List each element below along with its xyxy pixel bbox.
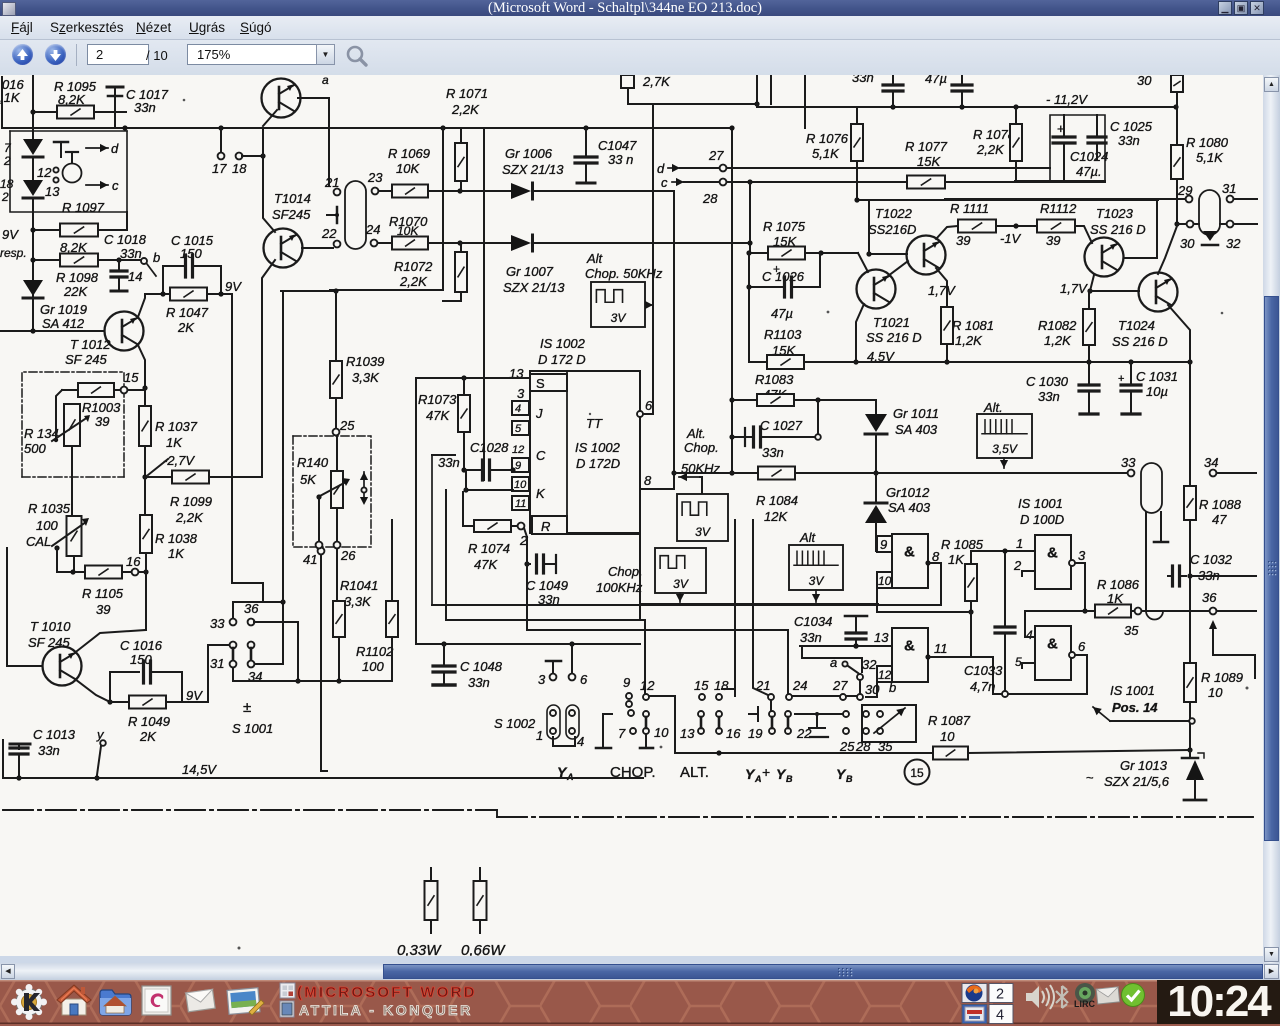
svg-text:R 1105: R 1105 [82, 586, 124, 601]
svg-text:R1039: R1039 [346, 354, 384, 369]
contact 24 [365, 222, 380, 246]
svg-text:30: 30 [1137, 75, 1152, 88]
svg-text:R: R [541, 519, 550, 534]
svg-text:47: 47 [1212, 512, 1227, 527]
wire pot link [54, 390, 62, 442]
svg-text:39: 39 [956, 233, 970, 248]
wire T1024 base line [1090, 290, 1139, 292]
svg-text:1: 1 [536, 728, 543, 743]
node dash box R134 [22, 372, 124, 477]
svg-text:9V: 9V [225, 279, 242, 294]
resistor 0,33W [397, 868, 442, 959]
resistor R1038 [140, 515, 198, 630]
capacitor C1049 [524, 528, 568, 607]
label ALT [680, 764, 709, 781]
resistor R1039 [330, 291, 384, 428]
svg-text:R 1097: R 1097 [62, 200, 105, 215]
contact 22 [321, 226, 340, 247]
svg-text:9V: 9V [186, 688, 203, 703]
contact 21c [748, 678, 775, 741]
home house icon [57, 985, 91, 1015]
wire [747, 182, 752, 253]
svg-text:-1V: -1V [1000, 231, 1022, 246]
svg-text:R 1037: R 1037 [155, 419, 198, 434]
switch oval 4 [566, 705, 584, 749]
wire [526, 564, 528, 630]
svg-text:S 1001: S 1001 [232, 721, 273, 736]
node 016 partial label [0, 77, 24, 105]
label 31b [210, 656, 224, 671]
wire [208, 645, 230, 702]
svg-text:5: 5 [1015, 655, 1022, 669]
svg-text:41: 41 [303, 552, 317, 567]
svg-text:3: 3 [517, 386, 525, 401]
svg-text:47µ: 47µ [771, 306, 793, 321]
svg-text:10: 10 [654, 725, 669, 740]
node IS1001 pos14 [1093, 683, 1189, 721]
svg-text:3V: 3V [809, 574, 825, 588]
scan specks [183, 99, 1249, 959]
node dash box R140 [293, 436, 371, 547]
svg-text:15K: 15K [917, 154, 941, 169]
resistor R1075 [746, 219, 858, 260]
pager 2x2 [962, 984, 1013, 1024]
svg-text:3: 3 [1078, 548, 1086, 563]
svg-text:19: 19 [748, 726, 762, 741]
svg-text:5,1K: 5,1K [1196, 150, 1224, 165]
svg-text:33n: 33n [1118, 133, 1140, 148]
svg-text:C: C [536, 448, 546, 463]
svg-text:4: 4 [996, 1008, 1004, 1024]
capacitor C1027 [732, 400, 821, 460]
svg-text:B: B [846, 774, 853, 784]
pulse box chop upper [591, 282, 653, 327]
wire T1023 collector loop [1124, 199, 1157, 258]
svg-text:Alt: Alt [799, 530, 817, 545]
label R1097 [62, 200, 105, 215]
svg-text:R140: R140 [297, 455, 329, 470]
svg-text:SS 216 D: SS 216 D [1090, 222, 1146, 237]
svg-text:2,2K: 2,2K [399, 274, 428, 289]
svg-text:34: 34 [1204, 455, 1218, 470]
resistor R1102 [356, 520, 398, 681]
label -11,2V [1046, 92, 1088, 107]
svg-text:24: 24 [792, 678, 807, 693]
svg-text:10: 10 [514, 479, 527, 491]
wire U link [553, 737, 575, 746]
resistor R1037 [139, 388, 198, 480]
resistor R1041 [333, 578, 378, 684]
svg-text:29: 29 [1177, 183, 1192, 198]
label Alt Chop 50KHz upper [585, 251, 663, 281]
svg-text:SF 245: SF 245 [65, 352, 107, 367]
ic pin 12b [866, 666, 892, 697]
potentiometer R1035 [26, 501, 89, 572]
label 2 [1013, 558, 1035, 576]
svg-text:1K: 1K [168, 546, 185, 561]
ic IS1002 label [538, 336, 586, 367]
svg-text:5: 5 [515, 423, 522, 435]
wire box 33n [432, 455, 455, 605]
wire [1189, 362, 1191, 486]
svg-text:31: 31 [1222, 181, 1236, 196]
resistor R1095 [30, 79, 126, 119]
resistor R1105 [57, 566, 131, 618]
svg-text:R 1049: R 1049 [128, 714, 170, 729]
svg-text:+: + [773, 262, 780, 276]
ic pin 9 [512, 458, 529, 472]
svg-text:TT: TT [586, 416, 603, 431]
wire T1014 collector down [328, 98, 330, 186]
wire bus x735 [734, 520, 736, 690]
node 2,7K box [621, 74, 671, 89]
svg-text:18: 18 [714, 678, 729, 693]
svg-text:resp.: resp. [0, 246, 27, 260]
wire bus y620 [446, 534, 645, 693]
svg-text:4: 4 [1026, 628, 1033, 642]
svg-text:25: 25 [339, 418, 355, 433]
svg-text:500: 500 [24, 441, 46, 456]
wire 17 18 contacts [212, 128, 266, 176]
wire main top rail [2, 125, 731, 130]
svg-text:4: 4 [515, 403, 521, 415]
wire [1145, 512, 1147, 520]
svg-text:9: 9 [623, 675, 630, 690]
ic TT label [575, 416, 621, 471]
capacitor C1032 [1154, 520, 1256, 586]
wire T1024 collector [1158, 226, 1177, 274]
svg-text:47K: 47K [426, 408, 450, 423]
svg-text:b: b [889, 680, 896, 695]
svg-text:7: 7 [618, 726, 626, 741]
svg-text:Gr 1019: Gr 1019 [40, 302, 87, 317]
svg-text:- 11,2V: - 11,2V [1046, 92, 1088, 107]
svg-text:c: c [112, 178, 119, 193]
svg-text:T 1012: T 1012 [70, 337, 111, 352]
svg-text:T1022: T1022 [875, 206, 913, 221]
wire T1021 emitter [853, 304, 864, 365]
svg-text:23: 23 [367, 170, 383, 185]
node 22 T [795, 712, 843, 737]
label 17-2 edge [2, 77, 12, 168]
svg-text:36: 36 [244, 601, 259, 616]
svg-text:C1034: C1034 [794, 614, 832, 629]
svg-text:SF245: SF245 [272, 207, 311, 222]
svg-text:1,7V: 1,7V [928, 283, 956, 298]
resistor R1072 [394, 243, 467, 301]
svg-text:24: 24 [365, 222, 380, 237]
capacitor C1048 [433, 644, 503, 690]
svg-text:C 1016: C 1016 [120, 638, 163, 653]
wire bus left vertical [232, 294, 283, 618]
gate output 11 [925, 641, 970, 660]
svg-text:11: 11 [515, 498, 526, 510]
ic pin S [509, 366, 567, 391]
svg-text:27: 27 [708, 148, 724, 163]
resistor R1112 [1037, 201, 1092, 248]
switch S1001 contacts [230, 619, 255, 668]
svg-text:10: 10 [878, 574, 892, 588]
svg-text:C 1025: C 1025 [1110, 119, 1153, 134]
resistor R1080 [1171, 92, 1229, 227]
svg-text:SA 403: SA 403 [895, 422, 938, 437]
svg-text:K: K [536, 486, 546, 501]
svg-text:(MICROSOFT WORD: (MICROSOFT WORD [297, 984, 477, 1001]
svg-text:R 1080: R 1080 [1186, 135, 1229, 150]
svg-text:2K: 2K [177, 320, 195, 335]
switch y [94, 727, 105, 781]
wire [858, 253, 868, 272]
svg-text:47µ.: 47µ. [1076, 164, 1102, 179]
svg-text:C1047: C1047 [598, 138, 637, 153]
svg-text:C 1031: C 1031 [1136, 369, 1178, 384]
capacitor C1030 [1026, 362, 1099, 414]
svg-text:Chop.: Chop. [608, 564, 643, 579]
contact 18c [714, 678, 741, 741]
resistor R1103 [749, 327, 858, 369]
svg-text:8: 8 [932, 549, 940, 564]
cable halfoval 35 [1146, 513, 1163, 620]
ic pin 11 [512, 486, 546, 510]
wire vertical x805 [804, 75, 806, 128]
contact 24c [785, 678, 840, 741]
svg-text:R 1086: R 1086 [1097, 577, 1140, 592]
capacitor C1026 [746, 253, 820, 321]
svg-text:8: 8 [644, 473, 652, 488]
contact 23 [367, 170, 383, 194]
svg-text:SS216D: SS216D [868, 222, 916, 237]
wire [748, 253, 750, 362]
contact 25 [333, 418, 356, 435]
svg-text:100: 100 [362, 659, 384, 674]
wire emitter T1014 lower [208, 260, 275, 477]
svg-text:Chop. 50KHz: Chop. 50KHz [585, 266, 663, 281]
svg-text:T1024: T1024 [1118, 318, 1155, 333]
svg-text:3V: 3V [611, 311, 627, 325]
diode Gr1013 [1086, 750, 1206, 800]
wire T1021 collector [888, 261, 908, 276]
label S1002 [494, 716, 536, 731]
svg-text:12K: 12K [764, 509, 788, 524]
svg-text:R 1088: R 1088 [1199, 497, 1242, 512]
resistor R1073 [418, 378, 470, 470]
svg-text:SZX 21/13: SZX 21/13 [503, 280, 565, 295]
label T1014 [272, 191, 311, 222]
wire verticals mid [443, 128, 484, 480]
svg-text:6: 6 [1078, 639, 1086, 654]
wire [878, 612, 993, 694]
wire T1022 collector [936, 226, 958, 239]
svg-text:T1021: T1021 [873, 315, 910, 330]
label -2,7V [148, 453, 195, 475]
transistor T1014 lower [264, 229, 303, 268]
svg-text:R 1089: R 1089 [1201, 670, 1243, 685]
diode Gr1006 [502, 146, 674, 199]
svg-text:30: 30 [865, 682, 880, 697]
svg-text:J: J [535, 406, 543, 421]
svg-text:5K: 5K [300, 472, 317, 487]
svg-text:47µ: 47µ [925, 75, 947, 86]
svg-text:±: ± [243, 699, 251, 716]
svg-text:Chop.: Chop. [684, 440, 719, 455]
ic pin 13b [874, 630, 889, 645]
capacitor C1018 [104, 232, 147, 291]
wire [679, 473, 702, 494]
label 33b [210, 616, 225, 631]
svg-text:22: 22 [321, 226, 337, 241]
capacitor C1015 [171, 233, 214, 277]
svg-text:D 100D: D 100D [1020, 512, 1064, 527]
pulse box chop 50k [677, 494, 728, 541]
ic pin 4c [1025, 611, 1085, 642]
ic pin 12 [512, 444, 546, 463]
wire [330, 289, 443, 291]
wire [144, 477, 146, 515]
svg-text:D 172 D: D 172 D [538, 352, 586, 367]
svg-text:R1083: R1083 [755, 372, 794, 387]
svg-text:27: 27 [832, 678, 848, 693]
svg-text:28: 28 [702, 191, 718, 206]
svg-text:1K: 1K [166, 435, 183, 450]
debian package icon [142, 986, 171, 1015]
svg-text:13: 13 [680, 726, 695, 741]
label 36b [244, 601, 259, 616]
svg-text:Gr 1011: Gr 1011 [893, 406, 939, 421]
ic pin 5 [512, 421, 529, 435]
svg-text:33n: 33n [38, 743, 60, 758]
switch a 32 30 [830, 655, 880, 700]
svg-text:33n: 33n [1038, 389, 1060, 404]
divider dash-dot [3, 810, 1253, 817]
svg-text:Alt: Alt [586, 251, 604, 266]
svg-text:18: 18 [232, 161, 247, 176]
gate output 3 [1069, 548, 1088, 614]
svg-text:C 1027: C 1027 [760, 418, 803, 433]
comb box Alt 3,5V [977, 400, 1032, 458]
cable link oval [345, 181, 366, 249]
label -1V [1000, 231, 1022, 246]
toolbar [0, 40, 1280, 76]
node d arrow [86, 141, 119, 156]
svg-text:Gr 1006: Gr 1006 [505, 146, 553, 161]
resistor R1074 [463, 492, 528, 572]
capacitor C1013 [10, 727, 76, 781]
svg-text:2: 2 [3, 154, 11, 168]
wire T1010 collector [77, 630, 146, 651]
resistor R1086 [1085, 577, 1141, 638]
resistor R1083 [732, 372, 876, 406]
wire pin10 link [446, 470, 513, 619]
label 3 [517, 386, 525, 401]
resistor R1088 [1184, 486, 1242, 527]
node C1024 C1025 box [1050, 115, 1105, 181]
wire T1022 base [866, 200, 907, 257]
wire [1160, 512, 1162, 520]
svg-text:R 1071: R 1071 [446, 86, 488, 101]
svg-text:b: b [153, 250, 160, 265]
contact 27c [832, 678, 855, 754]
svg-text:T1023: T1023 [1096, 206, 1134, 221]
svg-text:IS 1001: IS 1001 [1018, 496, 1063, 511]
svg-text:33n: 33n [438, 455, 460, 470]
svg-text:R 1038: R 1038 [155, 531, 198, 546]
wire T1010 emitter [75, 679, 113, 705]
capacitor C1016 [110, 638, 182, 702]
gate output 6 [993, 639, 1087, 697]
svg-text:SF 245: SF 245 [28, 635, 70, 650]
contact 3b [538, 661, 561, 687]
svg-text:1,2K: 1,2K [955, 333, 983, 348]
gate IS1001b [892, 628, 928, 682]
resistor R1098 [30, 254, 141, 300]
wire 21 up [753, 520, 771, 711]
switch b contact 14 [128, 250, 160, 284]
svg-text:9V: 9V [2, 227, 19, 242]
svg-text:2: 2 [996, 987, 1004, 1003]
svg-text:SZX 21/5,6: SZX 21/5,6 [1104, 774, 1170, 789]
svg-text:35: 35 [1124, 623, 1139, 638]
resistor R1070 [378, 237, 515, 250]
svg-text:C 1049: C 1049 [526, 578, 568, 593]
resistor R1077 [905, 139, 948, 189]
contact 12c [640, 678, 669, 748]
transistor T1021 [857, 270, 922, 346]
svg-text:R 1047: R 1047 [166, 305, 209, 320]
wire [263, 156, 275, 232]
switch box b [855, 680, 916, 754]
svg-text:R 1084: R 1084 [756, 493, 798, 508]
svg-text:T1014: T1014 [274, 191, 311, 206]
contact 16 [126, 554, 149, 575]
wire emitter T1012 [138, 345, 148, 391]
node adjust arrow [360, 472, 368, 505]
ic pin R [532, 516, 640, 534]
wire bus x283 top [281, 288, 339, 602]
svg-text:39: 39 [1046, 233, 1060, 248]
capacitor C1033 [964, 554, 1015, 694]
wire collector rail [854, 197, 1158, 202]
wire 36 line [1143, 590, 1256, 614]
svg-text:9: 9 [880, 537, 887, 552]
wire [800, 643, 892, 672]
svg-text:IS 1001: IS 1001 [1110, 683, 1155, 698]
svg-text:2: 2 [1013, 558, 1022, 573]
svg-text:33 n: 33 n [608, 152, 633, 167]
wire T1024 emitter [1168, 305, 1190, 362]
svg-text:~: ~ [1086, 770, 1094, 785]
wire S1001 links [233, 648, 251, 660]
comb box Alt 3V [789, 530, 843, 590]
contact 41b [316, 542, 323, 549]
svg-text:1K: 1K [948, 552, 965, 567]
svg-text:C1028: C1028 [470, 440, 509, 455]
svg-text:21: 21 [324, 175, 339, 190]
diode 13 [23, 180, 60, 199]
node T tap [327, 207, 339, 223]
transistor T1010 [28, 619, 82, 686]
svg-text:Gr 1013: Gr 1013 [1120, 758, 1168, 773]
resistor R1078 [973, 107, 1022, 181]
label YB [836, 766, 853, 784]
svg-text:13: 13 [45, 184, 60, 199]
diode Gr1019 [23, 280, 87, 331]
wire T1010 base [7, 548, 42, 666]
svg-text:Alt.: Alt. [686, 426, 706, 441]
svg-text:3V: 3V [673, 577, 689, 591]
resistor R1089 [1184, 576, 1243, 750]
node box around d/c outputs [10, 131, 127, 212]
svg-text:C 1030: C 1030 [1026, 374, 1069, 389]
